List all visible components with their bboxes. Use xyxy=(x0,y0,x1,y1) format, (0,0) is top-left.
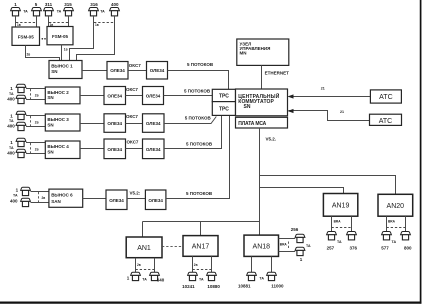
row3 phone bottom xyxy=(16,122,26,130)
wire AN18 drop left xyxy=(251,256,253,272)
svg-text:FSM-05: FSM-05 xyxy=(52,34,69,39)
wire phone5 to FSM1 xyxy=(36,16,38,27)
svg-text:2в: 2в xyxy=(35,121,39,125)
svg-text:ОЛЕ34: ОЛЕ34 xyxy=(107,147,122,152)
svg-text:ТРС: ТРС xyxy=(219,93,229,99)
row2 wire top phone to box xyxy=(26,88,45,90)
svg-text:SN: SN xyxy=(47,122,53,127)
wire 5 streams r2 to TPC1 xyxy=(164,95,213,97)
svg-text:257: 257 xyxy=(327,245,335,250)
box VYNOS2 SN xyxy=(45,87,80,104)
wire ATC2 line xyxy=(289,111,370,121)
wire OLE-OLE r2 xyxy=(126,95,143,97)
box OLE34 r1c2 xyxy=(147,62,168,80)
border frame right xyxy=(420,0,422,304)
svg-text:ТА: ТА xyxy=(9,119,14,123)
wire branch to AN20 xyxy=(260,176,396,195)
svg-text:400: 400 xyxy=(7,96,15,101)
svg-text:ТА: ТА xyxy=(392,240,397,244)
box central switch SN xyxy=(236,89,288,116)
svg-text:ТА: ТА xyxy=(259,277,264,281)
box OLE34 r4c1 xyxy=(104,139,126,159)
svg-text:ВЫНОС 3: ВЫНОС 3 xyxy=(47,117,69,122)
phone AN1 b xyxy=(150,272,160,280)
box AN17 xyxy=(183,236,218,257)
dashed range 316-400 xyxy=(94,22,114,24)
wire phone316 to VYNOS1 xyxy=(70,16,94,61)
phone TA-400 xyxy=(110,8,120,16)
svg-text:AN19: AN19 xyxy=(332,202,350,209)
svg-text:1в: 1в xyxy=(95,23,99,27)
wire drop to AN1 xyxy=(142,222,144,238)
svg-text:SN: SN xyxy=(51,69,57,74)
svg-text:FSM-05: FSM-05 xyxy=(18,34,35,39)
dashed AN1-AN17 xyxy=(162,245,183,247)
svg-text:ПЛАТА МСА: ПЛАТА МСА xyxy=(238,121,266,127)
svg-text:256: 256 xyxy=(291,227,299,232)
wire phone1 to FSM1 xyxy=(15,16,17,27)
phone AN20 a xyxy=(382,232,392,240)
phone AN18 right bottom xyxy=(295,247,305,255)
row2 phone bottom xyxy=(16,95,26,103)
svg-text:5 ПОТОКОВ: 5 ПОТОКОВ xyxy=(186,191,213,196)
wire bus bottom xyxy=(143,221,260,223)
phone AN20 b xyxy=(401,232,411,240)
border frame bottom xyxy=(0,302,421,304)
wire AN18 drop right xyxy=(271,256,273,272)
wire phone311 to FSM2 xyxy=(48,16,50,27)
wire VYNOS3 to OLE xyxy=(80,123,104,125)
row4 phone top xyxy=(16,138,26,146)
svg-text:ТА: ТА xyxy=(9,92,14,96)
svg-text:MN: MN xyxy=(240,51,247,56)
svg-text:ОЛЕ34: ОЛЕ34 xyxy=(146,147,161,152)
svg-text:1: 1 xyxy=(127,275,130,280)
svg-text:311: 311 xyxy=(45,2,53,7)
row5 wire bottom phone to box xyxy=(31,202,49,204)
svg-text:ОЛЕ34: ОЛЕ34 xyxy=(109,198,124,203)
box OLE34 r4c2 xyxy=(143,139,165,159)
wire AN18 right bottom xyxy=(279,251,296,253)
arrowhead ATC1 xyxy=(288,94,294,98)
phone AN19 a xyxy=(327,232,337,240)
svg-text:AN18: AN18 xyxy=(253,244,271,251)
box ATC2 xyxy=(370,114,402,125)
svg-text:V5.2.: V5.2. xyxy=(266,137,277,142)
svg-text:800: 800 xyxy=(404,245,412,250)
box TPC1 xyxy=(212,89,235,101)
wire AN20 drop right xyxy=(405,216,407,232)
svg-text:21: 21 xyxy=(340,110,344,114)
svg-text:21: 21 xyxy=(321,87,325,91)
dashed AN1 range xyxy=(136,269,155,271)
svg-text:ТРС: ТРС xyxy=(219,107,229,113)
svg-text:ОКС7: ОКС7 xyxy=(126,114,138,119)
svg-text:АТС: АТС xyxy=(379,118,392,125)
svg-text:400: 400 xyxy=(111,2,119,7)
svg-text:SN: SN xyxy=(47,150,53,155)
wire OLE-OLE r4 xyxy=(126,148,143,150)
svg-text:10241: 10241 xyxy=(182,284,195,289)
svg-text:ОЛЕ34: ОЛЕ34 xyxy=(146,121,161,126)
wire AN1 drop left xyxy=(135,258,137,273)
svg-text:5 ПОТОКОВ: 5 ПОТОКОВ xyxy=(184,88,211,93)
row5 dashed range xyxy=(38,192,40,203)
box OLE34 r3c1 xyxy=(104,114,126,133)
wire 5 streams r4 riser to TPC2 xyxy=(164,115,222,148)
svg-text:BRA: BRA xyxy=(280,243,288,247)
box control node MN xyxy=(237,39,289,65)
svg-text:ТА: ТА xyxy=(337,240,342,244)
phone TA-5 xyxy=(32,8,42,16)
wire phone315 to FSM2 xyxy=(68,16,70,27)
box plata MCA xyxy=(236,117,288,128)
wire AN19 drop left xyxy=(331,216,333,232)
wire AN17 drop left xyxy=(192,256,194,272)
svg-text:ОКС7: ОКС7 xyxy=(126,87,138,92)
svg-text:SN: SN xyxy=(47,95,53,100)
row3 dashed range xyxy=(30,116,32,127)
wire phone400 to VYNOS1 xyxy=(77,16,115,61)
svg-text:ТА: ТА xyxy=(57,10,62,14)
svg-text:ТА: ТА xyxy=(142,277,147,281)
ellipsis dots between FSM boxes xyxy=(42,38,44,40)
phone AN17 a xyxy=(188,272,198,280)
svg-text:АТС: АТС xyxy=(379,94,392,101)
row2 phone top xyxy=(16,84,26,92)
box OLE34 r2c1 xyxy=(104,87,126,105)
svg-text:ОКС7: ОКС7 xyxy=(129,63,141,68)
row5 phone bottom xyxy=(21,198,31,206)
box AN20 xyxy=(378,194,413,216)
svg-text:BRA: BRA xyxy=(334,219,342,223)
svg-text:315: 315 xyxy=(64,2,72,7)
wire ethernet xyxy=(261,65,263,89)
row5 phone top xyxy=(21,187,31,195)
wire AN17 drop right xyxy=(211,256,213,272)
svg-text:376: 376 xyxy=(350,245,358,250)
box VYNOS4 SN xyxy=(45,141,80,159)
svg-text:5 ПОТОКОВ: 5 ПОТОКОВ xyxy=(185,116,212,121)
box AN18 xyxy=(244,235,279,256)
svg-text:10881: 10881 xyxy=(238,284,251,289)
box OLE34 r5c1 xyxy=(106,190,127,210)
row2 wire bottom phone to box xyxy=(26,99,45,101)
svg-text:1: 1 xyxy=(300,257,303,262)
phone AN18 a xyxy=(247,272,257,280)
box OLE34 r2c2 xyxy=(143,87,164,105)
svg-text:AN1: AN1 xyxy=(137,245,151,252)
row2 dashed range xyxy=(30,89,32,100)
row3 phone top xyxy=(16,111,26,119)
box TPC2 xyxy=(212,102,235,116)
dashed AN18 right xyxy=(288,242,290,250)
svg-text:ОЛЕ34: ОЛЕ34 xyxy=(110,68,125,73)
svg-text:ТА: ТА xyxy=(23,10,28,14)
phone TA-1 xyxy=(11,8,21,16)
box VYNOS3 SN xyxy=(45,114,80,131)
svg-text:ТА: ТА xyxy=(306,244,311,248)
phone TA-315 xyxy=(64,8,74,16)
svg-text:ВЫНОС 4: ВЫНОС 4 xyxy=(47,144,69,149)
svg-text:2в: 2в xyxy=(27,52,31,56)
wire VYNOS6 to OLE xyxy=(83,198,106,200)
wire AN19 drop right xyxy=(351,216,353,232)
wire branch to AN19 xyxy=(260,188,344,194)
svg-text:1: 1 xyxy=(16,188,19,193)
phone AN18 b xyxy=(267,272,277,280)
svg-text:577: 577 xyxy=(381,245,389,250)
box OLE34 r1c1 xyxy=(107,62,128,80)
row4 wire top phone to box xyxy=(26,142,45,144)
svg-text:2в: 2в xyxy=(194,263,198,267)
wire drop to AN17 xyxy=(200,222,202,236)
svg-text:2в: 2в xyxy=(35,93,39,97)
wire trunk V5.2 xyxy=(259,128,261,235)
svg-text:2в: 2в xyxy=(35,147,39,151)
phone AN19 b xyxy=(347,232,357,240)
box AN1 xyxy=(126,237,162,258)
svg-text:400: 400 xyxy=(7,124,15,129)
dashed AN19 range xyxy=(332,227,352,229)
row4 wire bottom phone to box xyxy=(26,153,45,155)
svg-text:ТА: ТА xyxy=(100,10,105,14)
wire 5 streams r1 to TPC1 xyxy=(168,71,229,90)
wire AN1 drop right xyxy=(154,258,156,273)
svg-text:400: 400 xyxy=(7,150,15,155)
svg-text:BRA: BRA xyxy=(388,219,396,223)
svg-text:ОЛЕ34: ОЛЕ34 xyxy=(150,68,165,73)
wire 5 streams r3 to TPC2 diagonal xyxy=(164,117,216,124)
svg-text:400: 400 xyxy=(10,199,18,204)
svg-text:ТА: ТА xyxy=(13,194,18,198)
box FSM-05 #2 xyxy=(47,27,73,45)
svg-text:640: 640 xyxy=(157,278,165,283)
wire VYNOS1 to OLE xyxy=(82,70,107,72)
svg-text:2в: 2в xyxy=(42,196,46,200)
box AN19 xyxy=(323,194,357,217)
box VYNOS1 SN xyxy=(49,61,82,79)
phone AN1 a xyxy=(131,272,141,280)
svg-text:ТА: ТА xyxy=(9,146,14,150)
wire 5 streams r5 riser to TPC2 xyxy=(166,115,230,198)
svg-text:5 ПОТОКОВ: 5 ПОТОКОВ xyxy=(187,62,214,67)
svg-text:1: 1 xyxy=(10,113,13,118)
svg-text:AN17: AN17 xyxy=(192,244,210,251)
wire FSM1 to VYNOS1 xyxy=(26,45,60,60)
wire ATC1 line xyxy=(289,96,371,98)
svg-text:ВЫНОС 6: ВЫНОС 6 xyxy=(51,192,73,197)
dashed range 1-5 xyxy=(16,22,36,24)
svg-text:ОЛЕ34: ОЛЕ34 xyxy=(107,121,122,126)
svg-text:10880: 10880 xyxy=(207,284,220,289)
wire OLE-OLE r1 xyxy=(128,70,147,72)
phone AN17 b xyxy=(207,272,217,280)
wire FSM2 to VYNOS1 xyxy=(61,45,63,61)
box ATC1 xyxy=(370,90,401,103)
wire AN18 right top xyxy=(279,238,296,240)
svg-text:1: 1 xyxy=(14,2,17,7)
svg-text:11000: 11000 xyxy=(271,284,284,289)
svg-text:ВЫНОС 2: ВЫНОС 2 xyxy=(47,90,69,95)
svg-text:316: 316 xyxy=(90,2,98,7)
row3 wire top phone to box xyxy=(26,115,45,117)
dashed AN17 range xyxy=(193,269,212,271)
box OLE34 r3c2 xyxy=(143,114,165,133)
wire VYNOS4 to OLE xyxy=(80,148,104,150)
phone TA-316 xyxy=(89,8,99,16)
svg-text:V5.2:: V5.2: xyxy=(130,190,141,195)
svg-text:ОКС7: ОКС7 xyxy=(127,140,139,145)
svg-text:ETHERNET: ETHERNET xyxy=(265,71,290,76)
phone AN18 right top xyxy=(295,234,305,242)
phone TA-311 xyxy=(44,8,54,16)
svg-text:ТА: ТА xyxy=(199,277,204,281)
row5 wire top phone to box xyxy=(31,191,49,193)
wire AN20 drop left xyxy=(386,216,388,232)
box FSM-05 #1 xyxy=(12,27,40,45)
row3 wire bottom phone to box xyxy=(26,126,45,128)
row4 phone bottom xyxy=(16,149,26,157)
svg-text:2в: 2в xyxy=(137,263,141,267)
wire OLE-OLE r5 xyxy=(127,198,145,200)
svg-text:ОЛЕ34: ОЛЕ34 xyxy=(107,94,122,99)
wire OLE-OLE r3 xyxy=(126,123,143,125)
svg-text:5 ПОТОКОВ: 5 ПОТОКОВ xyxy=(186,141,213,146)
svg-text:AN20: AN20 xyxy=(387,203,405,210)
svg-text:1: 1 xyxy=(10,140,13,145)
svg-text:ВЫНОС 1: ВЫНОС 1 xyxy=(51,64,73,69)
dashed AN20 range xyxy=(387,227,406,229)
svg-text:SAN: SAN xyxy=(51,199,61,204)
dashed range 311-315 xyxy=(49,22,68,24)
svg-text:ОЛЕ34: ОЛЕ34 xyxy=(148,198,163,203)
svg-text:5: 5 xyxy=(35,2,38,7)
svg-text:1: 1 xyxy=(10,86,13,91)
box OLE34 r5c2 xyxy=(145,190,166,210)
row4 dashed range xyxy=(30,143,32,154)
svg-text:SN: SN xyxy=(244,104,251,110)
box VYNOS6 SAN xyxy=(49,189,83,207)
arrowhead ATC2 xyxy=(288,109,294,113)
svg-text:ОЛЕ34: ОЛЕ34 xyxy=(146,94,161,99)
wire VYNOS2 to OLE xyxy=(80,95,104,97)
svg-text:1в: 1в xyxy=(64,48,68,52)
